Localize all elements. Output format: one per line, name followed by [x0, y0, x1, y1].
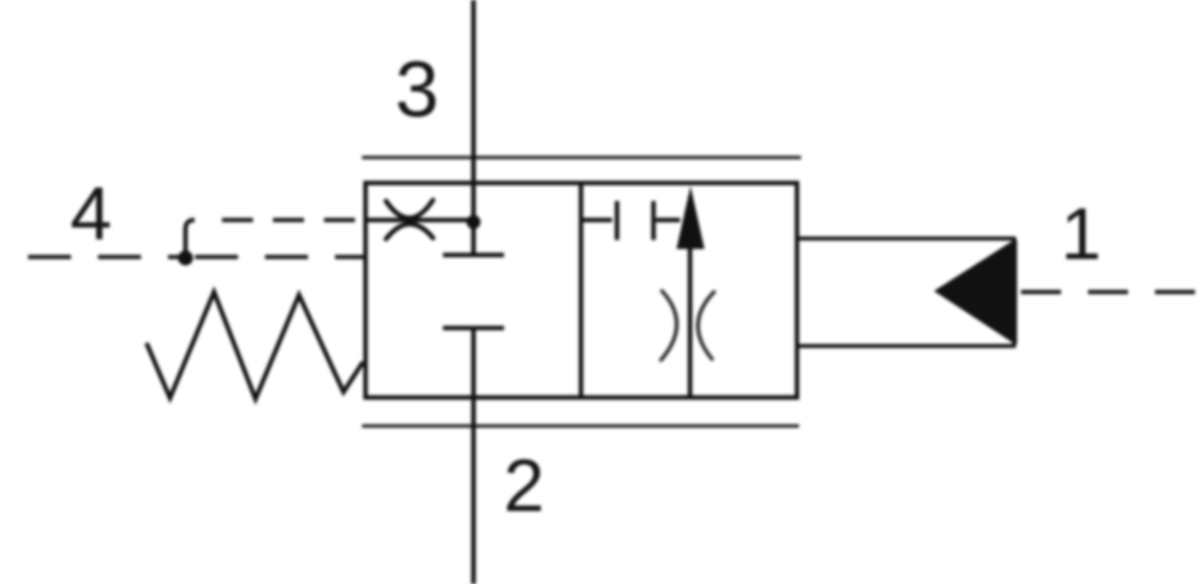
svg-text:2: 2	[503, 444, 544, 527]
svg-text:1: 1	[1061, 194, 1102, 275]
port 1 pilot dashed line	[1021, 290, 1200, 294]
pilot actuator triangle	[934, 239, 1016, 345]
pilot actuator box bottom	[797, 344, 1016, 348]
top rail line	[362, 156, 801, 160]
arrowhead	[677, 186, 705, 249]
svg-text:3: 3	[395, 44, 439, 133]
variable restriction X	[386, 200, 433, 239]
pilot line through restriction	[366, 218, 474, 223]
blocked tick pair in right position	[581, 201, 680, 240]
svg-text:4: 4	[70, 171, 112, 255]
spring	[147, 292, 364, 399]
upper pilot dashed line	[222, 218, 366, 222]
pilot junction dot	[178, 251, 193, 266]
port 3 line	[471, 0, 476, 255]
check flow arrow line	[688, 247, 693, 398]
bottom rail line	[362, 424, 799, 428]
position divider	[579, 183, 584, 398]
port 2 blocked T bar	[443, 326, 504, 331]
port 2 line	[471, 328, 476, 584]
restriction arcs	[661, 291, 714, 360]
pilot actuator box top	[797, 237, 1016, 241]
valve body outline	[366, 183, 798, 398]
junction dot on port 3 line	[467, 215, 481, 229]
pilot branch elbow	[186, 220, 195, 258]
port 4 pilot dashed line	[28, 255, 192, 259]
port 3 blocked T bar	[443, 253, 504, 258]
